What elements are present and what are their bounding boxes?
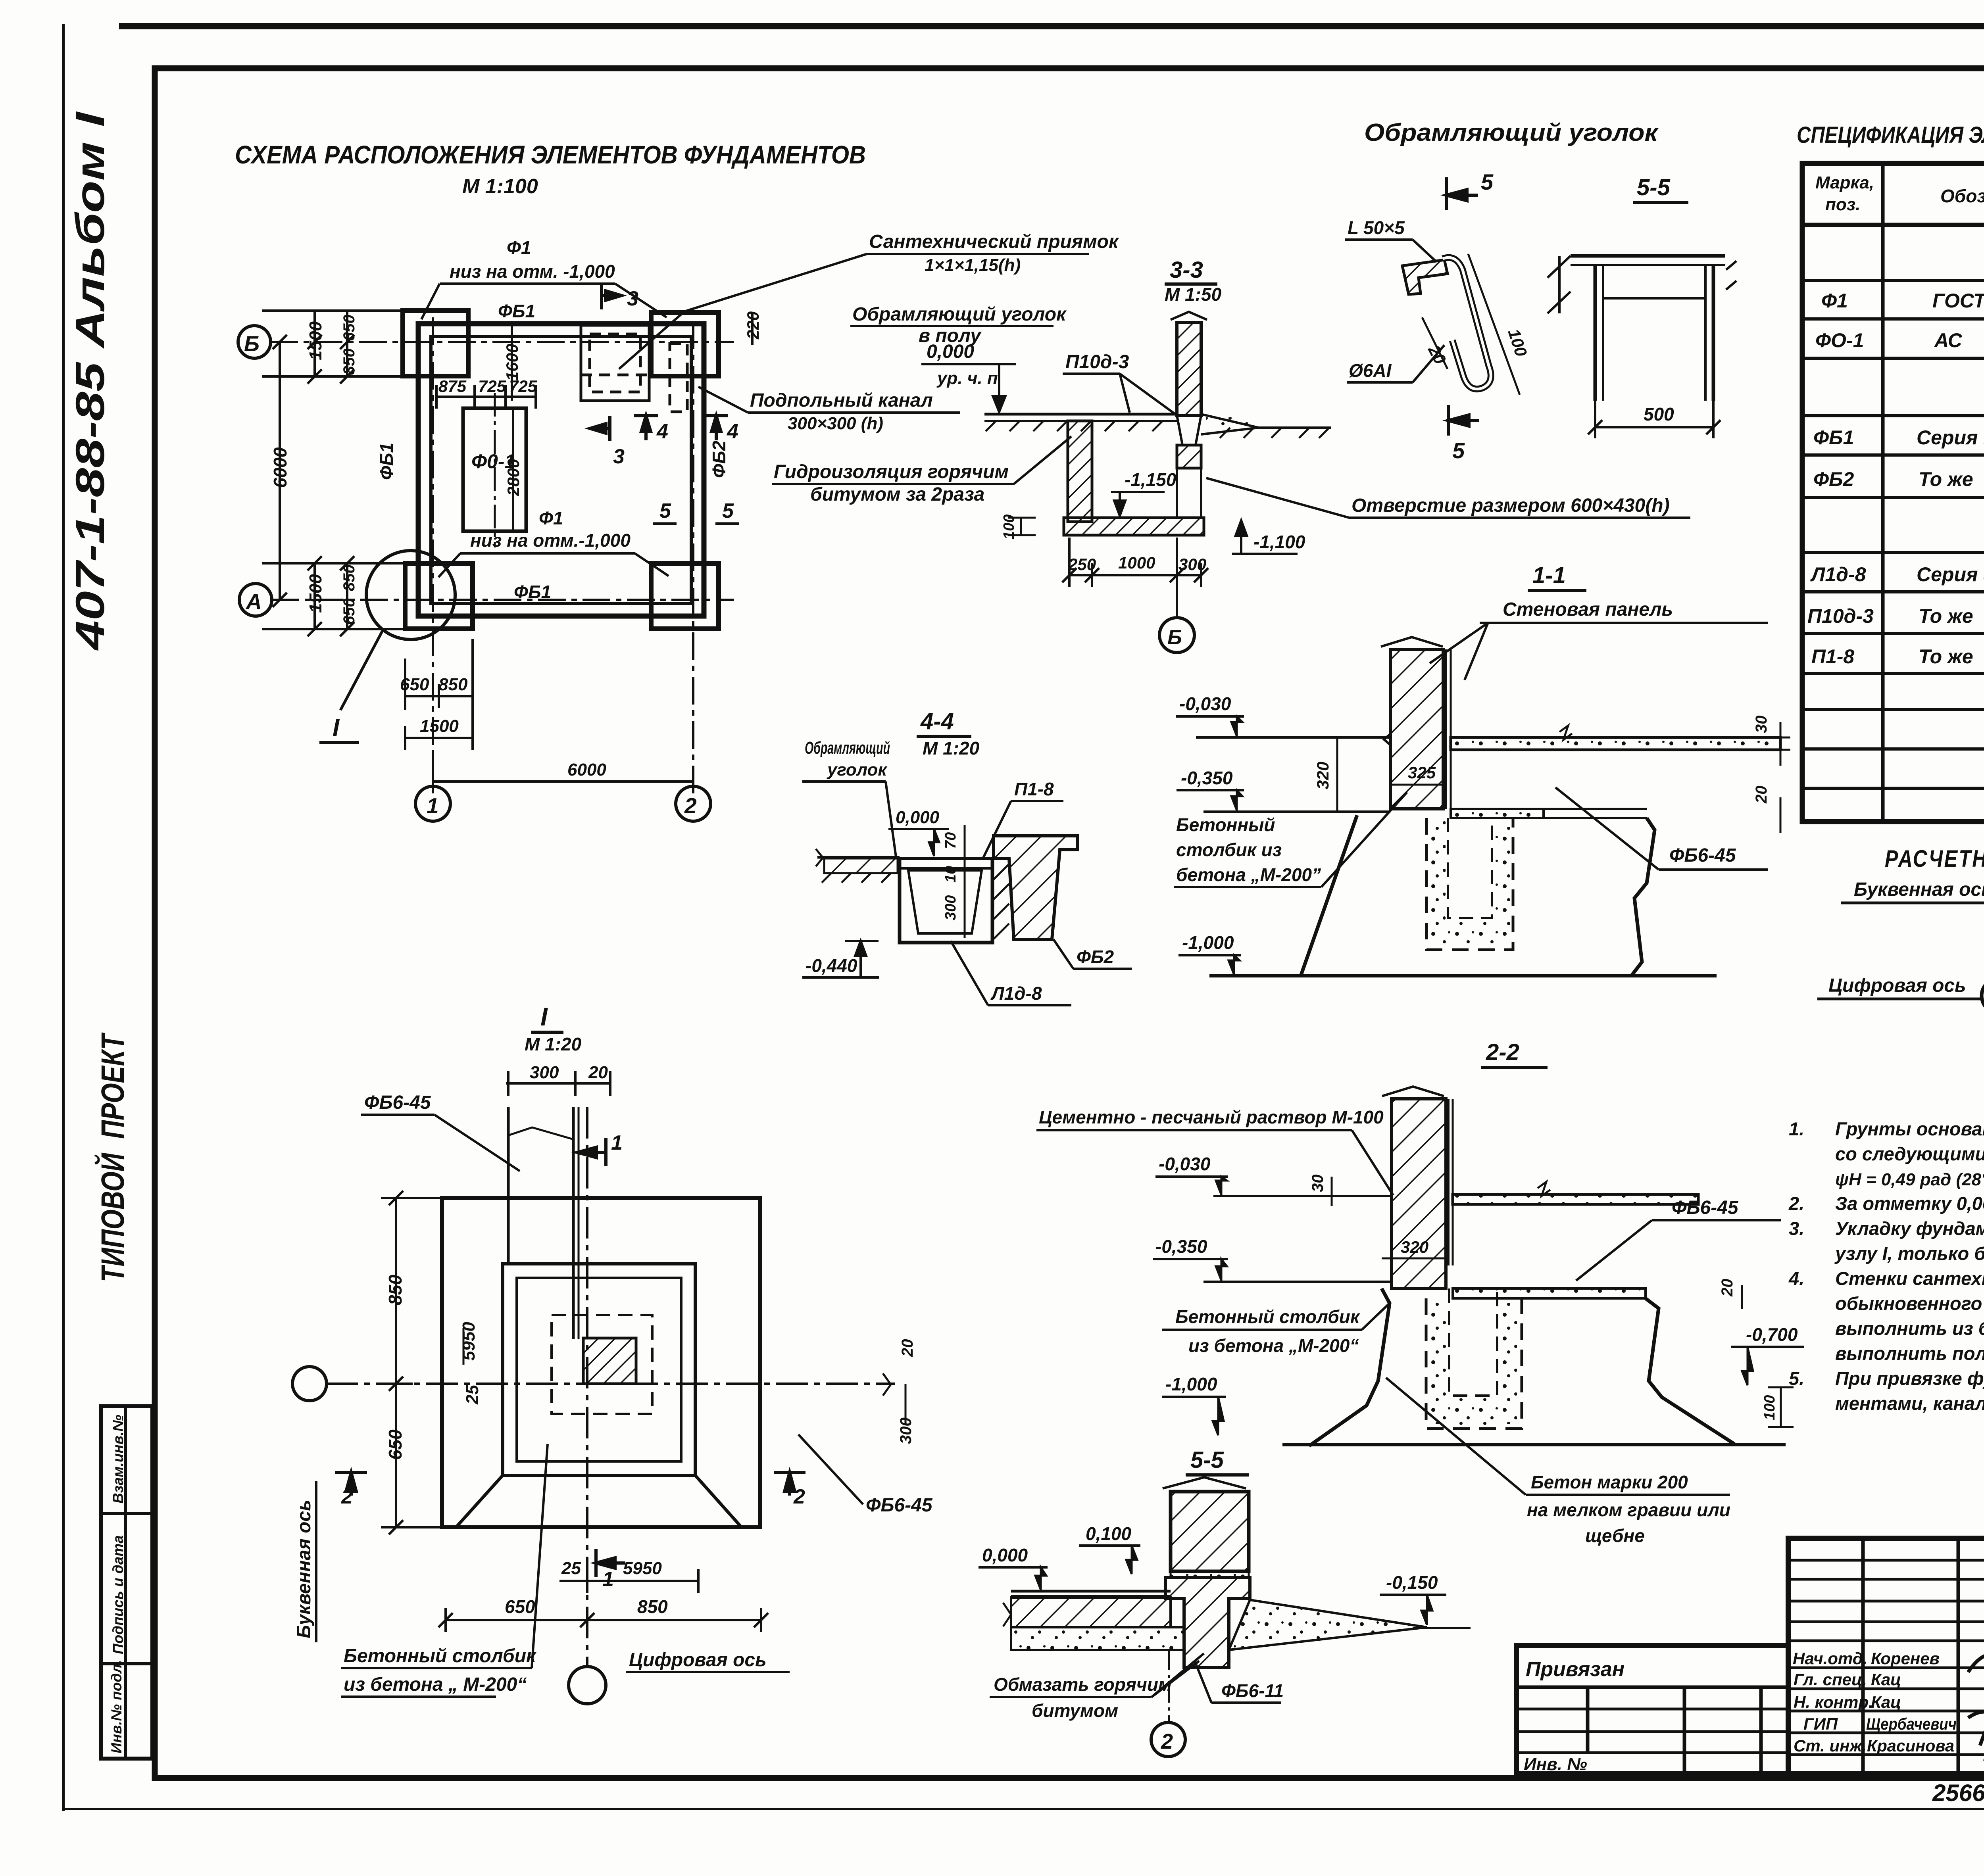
squares	[442, 1198, 760, 1527]
svg-text:Марка,: Марка,	[1815, 173, 1874, 192]
svg-text:ФБ6-45: ФБ6-45	[866, 1495, 933, 1516]
svg-text:ФБ2: ФБ2	[1813, 468, 1854, 490]
svg-text:Ф1: Ф1	[1821, 290, 1848, 312]
svg-text:100: 100	[1761, 1395, 1778, 1420]
svg-text:1000: 1000	[1118, 553, 1155, 572]
3-3 blind area wedge right	[1201, 414, 1331, 428]
FB2 beam	[994, 836, 1078, 939]
ground hatch between	[992, 864, 1009, 940]
svg-text:I: I	[333, 714, 340, 741]
title block	[1788, 1538, 1984, 1774]
svg-text:Н. контр.: Н. контр.	[1794, 1693, 1873, 1711]
svg-text:ψН = 0,49 рад (28°); СН = 2кП: ψН = 0,49 рад (28°); СН = 2кПа ( 0,02 кг…	[1835, 1170, 1984, 1189]
svg-text:Б: Б	[244, 331, 260, 356]
top dims	[506, 1071, 610, 1096]
svg-text:низ на отм.-1,000: низ на отм.-1,000	[470, 530, 631, 551]
3-3 wall column	[984, 312, 1331, 535]
svg-text:6000: 6000	[567, 760, 606, 780]
svg-text:Буквенная ось: Буквенная ось	[294, 1500, 315, 1638]
svg-text:на мелком гравии или: на мелком гравии или	[1527, 1500, 1730, 1520]
svg-text:ГИП: ГИП	[1803, 1715, 1838, 1733]
svg-text:875: 875	[438, 377, 467, 396]
letter axis label	[1841, 879, 1984, 917]
top slab band	[1451, 737, 1780, 750]
pocket dashed	[1426, 1298, 1522, 1429]
svg-text:10: 10	[942, 866, 959, 883]
svg-text:850: 850	[637, 1596, 668, 1617]
corner pads F1	[403, 311, 719, 629]
bottom band	[1451, 809, 1544, 818]
svg-text:Бетон марки 200: Бетон марки 200	[1531, 1472, 1688, 1492]
svg-text:70: 70	[942, 832, 959, 849]
svg-text:Нач.отд.: Нач.отд.	[1793, 1649, 1867, 1668]
svg-text:Отверстие размером 600×430(h: Отверстие размером 600×430(h)	[1352, 495, 1670, 516]
svg-text:3.: 3.	[1789, 1218, 1804, 1239]
svg-text:Укладку фундаментных балок: Укладку фундаментных балок по оси „2” вы…	[1835, 1218, 1984, 1239]
plan axis lines	[270, 317, 734, 787]
bottom band	[1453, 1288, 1646, 1298]
floor left	[1011, 1590, 1171, 1593]
svg-text:ТИПОВОЙ ПРОЕКТ: ТИПОВОЙ ПРОЕКТ	[94, 1032, 131, 1282]
svg-text:Буквенная ось: Буквенная ось	[1854, 879, 1984, 900]
svg-text:20: 20	[1719, 1279, 1736, 1297]
svg-text:Обозначение: Обозначение	[1940, 186, 1984, 206]
svg-text:-0,150: -0,150	[1386, 1572, 1438, 1593]
svg-text:2.: 2.	[1788, 1193, 1804, 1214]
svg-text:Л1д-8: Л1д-8	[990, 983, 1042, 1004]
svg-text:-1,000: -1,000	[1182, 932, 1234, 953]
right wedge	[1229, 1600, 1427, 1650]
1-1 wall column hatched	[1196, 637, 1780, 976]
left dims	[381, 1191, 442, 1534]
svg-text:300: 300	[942, 895, 959, 920]
svg-text:5: 5	[1481, 169, 1494, 194]
3-3 pit bottom slab	[1064, 518, 1204, 535]
svg-text:3: 3	[613, 445, 625, 468]
privyazan box	[1517, 1646, 1788, 1774]
mortar joint	[1171, 1571, 1249, 1578]
svg-text:5: 5	[659, 499, 671, 522]
spec header texts	[1815, 173, 1984, 214]
svg-text:Инв. №: Инв. №	[1524, 1755, 1587, 1774]
svg-text:со следующими нормативными хар: со следующими нормативными характеристик…	[1835, 1143, 1984, 1164]
5-5 drawing	[1003, 1477, 1471, 1667]
4-4 dims	[964, 825, 966, 938]
svg-text:850: 850	[340, 565, 358, 591]
spec rows	[1807, 239, 1984, 820]
hook dims	[1468, 254, 1520, 395]
svg-text:407-1-88-85 Альбом I: 407-1-88-85 Альбом I	[67, 111, 113, 651]
svg-text:ФБ6-11: ФБ6-11	[1221, 1680, 1284, 1701]
svg-text:1: 1	[611, 1131, 623, 1154]
channel Л1д-8	[900, 858, 992, 943]
svg-text:То же: То же	[1919, 645, 1973, 668]
svg-text:1-1: 1-1	[1532, 563, 1566, 588]
svg-text:выполнить полностью из бето: выполнить полностью из бетона марки „ М-…	[1835, 1343, 1984, 1364]
svg-text:битумом за 2раза: битумом за 2раза	[810, 484, 984, 505]
svg-text:узлу I, только балка будет: узлу I, только балка будет поднята под п…	[1834, 1243, 1984, 1264]
signature rows text	[1793, 1649, 1957, 1755]
svg-text:обыкновенного кирпича, кроме: обыкновенного кирпича, кроме наружной, к…	[1835, 1293, 1984, 1314]
number axis label	[1817, 975, 1984, 1013]
F0-1 equipment foundation	[463, 408, 526, 531]
svg-text:Ст. инж.: Ст. инж.	[1794, 1736, 1867, 1755]
svg-text:Бетонный столбик: Бетонный столбик	[344, 1646, 537, 1667]
svg-text:725: 725	[478, 377, 506, 396]
foundation	[1309, 1288, 1390, 1446]
svg-text:4: 4	[656, 420, 668, 443]
svg-text:3-3: 3-3	[1170, 257, 1203, 283]
svg-text:6000: 6000	[270, 447, 290, 488]
svg-text:М 1:100: М 1:100	[462, 175, 538, 198]
svg-text:выполнить из бетона марки „М: выполнить из бетона марки „М-100” Осталь…	[1835, 1318, 1984, 1339]
svg-text:300: 300	[530, 1063, 559, 1082]
svg-text:-1,150: -1,150	[1125, 469, 1177, 490]
svg-text:2: 2	[793, 1485, 805, 1508]
svg-text:ФО-1: ФО-1	[1815, 329, 1864, 351]
svg-text:L 50×5: L 50×5	[1348, 217, 1405, 238]
svg-text:Щербачевич: Щербачевич	[1866, 1715, 1957, 1733]
svg-text:Инв.№ подл.: Инв.№ подл.	[108, 1660, 125, 1753]
svg-text:Подпольный канал: Подпольный канал	[750, 390, 933, 411]
5-5 small detail drawing	[1548, 256, 1736, 401]
svg-text:РАСЧЕТНАЯ СХЕМА НАГРУЗОК НА ФУ: РАСЧЕТНАЯ СХЕМА НАГРУЗОК НА ФУНДАМЕНТ	[1885, 845, 1984, 872]
svg-text:Взам.инв.№: Взам.инв.№	[110, 1415, 126, 1503]
svg-text:Обрамляющий: Обрамляющий	[805, 738, 890, 758]
svg-text:20: 20	[899, 1339, 916, 1358]
3-3 pit right wall upper part	[1177, 445, 1201, 468]
svg-text:То же: То же	[1919, 468, 1973, 490]
svg-text:ментами, каналом и приямками: ментами, каналом и приямками.	[1835, 1393, 1984, 1414]
sanitary pit	[581, 325, 687, 412]
svg-text:650: 650	[340, 598, 358, 625]
svg-text:4: 4	[727, 420, 738, 443]
svg-text:Гидроизоляция горячим: Гидроизоляция горячим	[774, 461, 1009, 482]
П1-8 plate on channel	[900, 857, 992, 860]
svg-text:П1-8: П1-8	[1811, 645, 1854, 668]
svg-text:500: 500	[1644, 404, 1674, 424]
svg-text:бетона „М-200”: бетона „М-200”	[1176, 864, 1321, 885]
svg-text:-0,440: -0,440	[806, 955, 857, 976]
svg-text:25663-01: 25663-01	[1932, 1780, 1984, 1806]
svg-text:из бетона „М-200“: из бетона „М-200“	[1188, 1335, 1359, 1356]
axes	[326, 1383, 895, 1385]
svg-text:20: 20	[1753, 786, 1770, 804]
svg-text:1×1×1,15(h): 1×1×1,15(h)	[925, 255, 1021, 275]
svg-text:М 1:50: М 1:50	[1165, 284, 1222, 305]
concrete post label 2-2	[1175, 1306, 1361, 1356]
svg-text:М 1:20: М 1:20	[923, 738, 980, 758]
svg-text:0,000: 0,000	[927, 341, 974, 362]
svg-text:ФБ2: ФБ2	[1077, 947, 1114, 967]
svg-text:СХЕМА РАСПОЛОЖЕНИЯ ЭЛЕМЕНТОВ Ф: СХЕМА РАСПОЛОЖЕНИЯ ЭЛЕМЕНТОВ ФУНДАМЕНТОВ	[235, 140, 866, 169]
svg-text:Бетонный столбик: Бетонный столбик	[1175, 1306, 1361, 1327]
svg-text:Привязан: Привязан	[1526, 1658, 1624, 1681]
svg-text:Грунты основания фундаментов: Грунты основания фундаментов непучинисты…	[1835, 1118, 1984, 1139]
4-4 floor left	[816, 836, 1078, 943]
svg-text:1500: 1500	[420, 716, 459, 736]
svg-text:Подпись и дата: Подпись и дата	[110, 1535, 126, 1654]
svg-text:Цементно - песчаный раствор М: Цементно - песчаный раствор М-100	[1039, 1107, 1384, 1127]
svg-text:-1,100: -1,100	[1253, 532, 1305, 552]
svg-text:250: 250	[1068, 555, 1096, 574]
svg-text:Л1д-8: Л1д-8	[1810, 563, 1866, 586]
svg-text:-0,030: -0,030	[1159, 1154, 1211, 1174]
section 1 mark bottom	[596, 1549, 625, 1577]
top slab band	[1453, 1194, 1698, 1204]
dims 250 1000 300	[1062, 538, 1208, 587]
svg-text:Серия 1,415-1 в.1: Серия 1,415-1 в.1	[1917, 426, 1984, 449]
svg-text:ФБ1: ФБ1	[498, 301, 535, 321]
top dims 875 725 725 and 1600 2800 220	[436, 313, 752, 531]
svg-text:П10д-3: П10д-3	[1807, 605, 1874, 627]
section 2 marks	[335, 1473, 806, 1496]
svg-text:-0,030: -0,030	[1179, 693, 1231, 714]
beam vertical lines	[508, 1107, 579, 1339]
wall column	[1171, 1492, 1249, 1571]
svg-text:650: 650	[400, 675, 429, 694]
axis B circle below 3-3	[1176, 575, 1178, 617]
svg-text:220: 220	[744, 311, 762, 340]
svg-text:3: 3	[627, 287, 638, 310]
bottom dims	[405, 639, 693, 793]
svg-text:850: 850	[438, 675, 468, 694]
signatures squiggles	[1968, 1632, 1984, 1770]
bottom dims	[438, 1569, 768, 1632]
svg-text:30: 30	[1309, 1175, 1327, 1192]
svg-text:1500: 1500	[306, 574, 325, 613]
svg-text:ФБ6-45: ФБ6-45	[364, 1092, 431, 1113]
detail I circle	[366, 551, 455, 639]
svg-text:25: 25	[463, 1385, 482, 1405]
svg-text:Обмазать горячим: Обмазать горячим	[994, 1674, 1172, 1695]
svg-text:1: 1	[602, 1568, 614, 1591]
svg-text:ФБ2: ФБ2	[709, 441, 729, 478]
svg-text:П1-8: П1-8	[1014, 779, 1054, 799]
label F1 top	[450, 237, 615, 282]
svg-text:5: 5	[722, 499, 734, 522]
svg-text:Ф1: Ф1	[507, 237, 531, 258]
svg-text:5: 5	[1452, 438, 1465, 463]
svg-text:2800: 2800	[504, 459, 523, 496]
svg-text:Кац: Кац	[1871, 1670, 1901, 1689]
left bottom small table	[101, 1406, 152, 1759]
svg-text:Кац: Кац	[1871, 1693, 1901, 1711]
svg-text:низ на отм. -1,000: низ на отм. -1,000	[450, 261, 615, 282]
svg-text:2: 2	[684, 793, 697, 818]
svg-text:ФБ1: ФБ1	[1813, 426, 1854, 449]
svg-text:-1,000: -1,000	[1165, 1374, 1217, 1394]
svg-text:2: 2	[341, 1485, 353, 1508]
svg-text:Цифровая ось: Цифровая ось	[1828, 975, 1966, 996]
svg-text:-0,700: -0,700	[1746, 1324, 1798, 1345]
svg-text:320: 320	[1313, 762, 1332, 789]
svg-text:Ø6AI: Ø6AI	[1349, 360, 1392, 381]
svg-text:Красинова: Красинова	[1867, 1736, 1954, 1755]
svg-text:П10д-3: П10д-3	[1065, 351, 1129, 373]
3-3 floor slab left	[984, 413, 1177, 416]
svg-text:650: 650	[385, 1429, 406, 1460]
svg-text:Серия 3.006-2 в.0,1: Серия 3.006-2 в.0,1	[1917, 563, 1984, 586]
svg-text:4-4: 4-4	[920, 709, 954, 734]
section marks on plan	[590, 284, 728, 441]
svg-text:битумом: битумом	[1032, 1700, 1118, 1721]
svg-text:850: 850	[340, 348, 358, 375]
hook: angle piece hatched	[1402, 260, 1448, 294]
left dimension chains	[262, 311, 405, 636]
svg-text:Сантехнический приямок: Сантехнический приямок	[869, 231, 1119, 252]
concrete post label 1-1	[1176, 814, 1321, 885]
foundation	[1301, 815, 1357, 976]
svg-text:Обрамляющий уголок: Обрамляющий уголок	[1364, 119, 1659, 146]
svg-text:25: 25	[561, 1559, 581, 1578]
plan axis circles	[238, 326, 711, 821]
svg-text:850: 850	[385, 1275, 406, 1305]
hook rod	[1443, 257, 1491, 389]
svg-text:ФБ6-45: ФБ6-45	[1669, 845, 1736, 866]
svg-text:0,100: 0,100	[1086, 1523, 1132, 1544]
svg-text:I: I	[540, 1002, 548, 1031]
section mark 5 bottom	[1448, 405, 1479, 436]
svg-text:1: 1	[427, 793, 439, 818]
svg-text:Б: Б	[1167, 626, 1182, 649]
svg-text:5950: 5950	[623, 1559, 662, 1578]
svg-text:5950: 5950	[459, 1322, 479, 1361]
svg-text:Ф1: Ф1	[539, 508, 563, 528]
svg-text:20: 20	[588, 1063, 608, 1082]
svg-text:Стенки сантехнического прия: Стенки сантехнического приямка (по оси „…	[1835, 1268, 1984, 1289]
svg-text:Обрамляющий уголок: Обрамляющий уголок	[852, 304, 1067, 325]
svg-text:столбик из: столбик из	[1176, 839, 1282, 860]
section mark 5 top	[1446, 177, 1478, 210]
svg-text:За отметку 0,000 принята отм: За отметку 0,000 принята отметка чистого…	[1835, 1193, 1984, 1214]
svg-text:300×300 (h): 300×300 (h)	[788, 414, 883, 433]
svg-text:2: 2	[1161, 1730, 1173, 1753]
svg-text:325: 325	[1408, 763, 1436, 782]
3-3 pit left wall	[1068, 421, 1092, 522]
building walls	[418, 324, 704, 616]
svg-text:1.: 1.	[1789, 1118, 1804, 1139]
svg-text:0,000: 0,000	[896, 808, 940, 827]
svg-text:уголок: уголок	[827, 760, 888, 780]
section 1 mark top	[577, 1138, 606, 1166]
svg-text:ГОСТ 24022-80: ГОСТ 24022-80	[1932, 290, 1984, 312]
svg-text:1600: 1600	[503, 344, 521, 381]
svg-text:То же: То же	[1919, 605, 1973, 627]
label F1 bottom	[470, 508, 631, 551]
svg-text:Цифровая ось: Цифровая ось	[629, 1649, 767, 1671]
svg-text:АС: АС	[1934, 329, 1963, 351]
svg-text:0,000: 0,000	[982, 1545, 1028, 1565]
svg-text:Гл. спец.: Гл. спец.	[1794, 1670, 1867, 1689]
svg-text:ФБ1: ФБ1	[376, 443, 397, 480]
svg-text:Стеновая панель: Стеновая панель	[1503, 599, 1673, 620]
specification table grid	[1802, 163, 1984, 822]
svg-text:2-2: 2-2	[1486, 1039, 1519, 1065]
axis circle 2	[1168, 1650, 1170, 1722]
svg-text:ФБ1: ФБ1	[514, 582, 551, 602]
500 dim	[1588, 401, 1721, 438]
svg-text:СПЕЦИФИКАЦИЯ ЭЛЕМЕНТОВ К СХЕМЕ: СПЕЦИФИКАЦИЯ ЭЛЕМЕНТОВ К СХЕМЕ,РАСПОЛОЖЕ…	[1797, 122, 1984, 148]
svg-text:Коренев: Коренев	[1871, 1649, 1940, 1668]
svg-text:5.: 5.	[1789, 1368, 1804, 1389]
svg-text:-0,350: -0,350	[1155, 1236, 1207, 1257]
svg-text:30: 30	[1753, 716, 1770, 734]
svg-text:1500: 1500	[306, 321, 325, 360]
svg-text:4.: 4.	[1788, 1268, 1804, 1289]
svg-text:А: А	[245, 589, 262, 614]
svg-text:650: 650	[340, 315, 358, 341]
2-2 wall column	[1213, 1087, 1786, 1446]
svg-text:320: 320	[1401, 1238, 1428, 1256]
svg-text:М 1:20: М 1:20	[525, 1034, 582, 1054]
svg-text:щебне: щебне	[1585, 1525, 1645, 1546]
svg-text:При привязке фундаментов ука: При привязке фундаментов указать тип под…	[1835, 1368, 1984, 1389]
svg-text:ур. ч. п: ур. ч. п	[936, 369, 998, 388]
svg-text:5-5: 5-5	[1637, 175, 1671, 200]
svg-text:5-5: 5-5	[1190, 1447, 1224, 1473]
beam FB6-11	[1165, 1578, 1250, 1667]
pocket dashed	[1426, 818, 1513, 950]
svg-text:из бетона „ М-200“: из бетона „ М-200“	[344, 1674, 527, 1695]
svg-text:300: 300	[1178, 555, 1206, 574]
svg-text:-0,350: -0,350	[1181, 768, 1233, 788]
svg-text:ФБ6-45: ФБ6-45	[1672, 1197, 1739, 1218]
svg-text:Бетонный: Бетонный	[1176, 814, 1275, 835]
beton marki 200 label	[1527, 1472, 1730, 1546]
svg-text:650: 650	[505, 1596, 535, 1617]
notes	[1788, 1118, 1984, 1414]
svg-text:поз.: поз.	[1825, 195, 1860, 214]
